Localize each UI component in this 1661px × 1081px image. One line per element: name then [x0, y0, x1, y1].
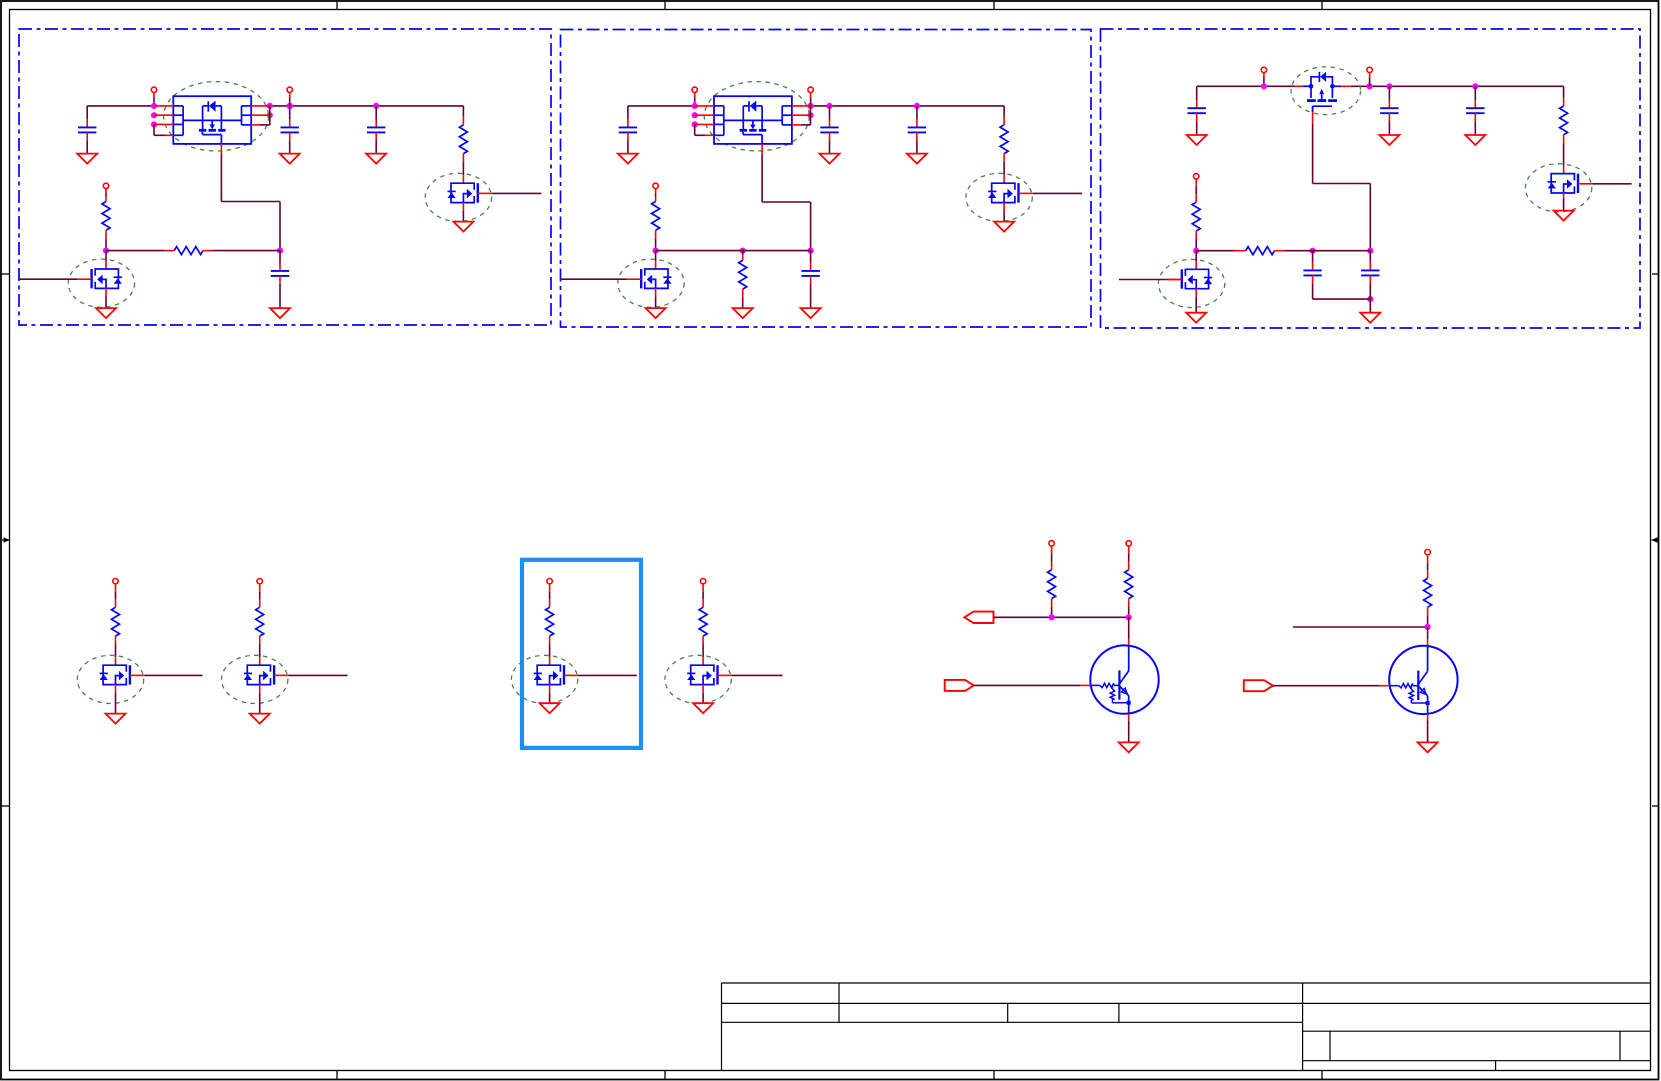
node dots bottom net 2 [653, 248, 814, 254]
highlight selection box [522, 560, 641, 748]
wire gate Q2b from edge [561, 278, 627, 280]
capacitor C2d [801, 251, 819, 308]
capacitor C22 [820, 106, 838, 153]
wire bottom net 1 left [106, 250, 174, 252]
power-block dash-dot boundary 3 [1101, 29, 1641, 328]
MOSFET Q3a [1548, 174, 1593, 193]
node junction dots on rail 2 [692, 103, 920, 128]
wire source Q4 to ground [115, 685, 117, 714]
pin P7 [700, 579, 705, 608]
wire U2 gate net [762, 144, 811, 251]
capacitor C21 [619, 106, 637, 153]
wire R5 to Q5 [259, 636, 261, 665]
resistor R2a [1000, 106, 1008, 154]
wire emitter to ground 8 [1128, 714, 1130, 742]
rail junction dots 3 [1261, 83, 1479, 89]
resistor R3a [1560, 86, 1568, 135]
wire R2a to Q2a [1003, 154, 1005, 184]
U2 left pin stubs [695, 106, 714, 135]
pin VOUT2 [808, 87, 813, 106]
wire port to node 8 [994, 616, 1129, 618]
ground below C33 [1465, 135, 1485, 145]
resistor R8a [1048, 570, 1056, 618]
capacitor C3e [1361, 251, 1379, 299]
wire bottom net 2 [656, 250, 811, 252]
wire gate Q7 out [732, 674, 783, 676]
pin P5 [257, 579, 262, 608]
resistor R2b [652, 202, 660, 251]
resistor R1b [102, 202, 110, 251]
ground below C13 [366, 154, 386, 164]
pin VOUT3 [1367, 67, 1372, 86]
ground below Q3b [1186, 313, 1206, 323]
capacitor C1d [271, 251, 289, 308]
enclosure ellipse Q1b [68, 259, 134, 307]
wire input port to base 9 [1273, 685, 1389, 687]
pin P4 [113, 579, 118, 608]
resistor R3b [1192, 202, 1200, 251]
wire source Q1a to ground [462, 203, 464, 222]
enclosure ellipse Q2a [966, 173, 1032, 221]
digital transistor Q8 [1090, 645, 1158, 713]
U1 left pin stubs [154, 106, 173, 135]
capacitor C31 [1188, 86, 1206, 135]
ground below Q2b [646, 308, 666, 318]
wire VIN rail net 3 [1197, 85, 1564, 87]
op enclosure ellipse U1 [164, 82, 269, 151]
resistor R1a [459, 106, 467, 154]
pin VIN3 [1261, 67, 1266, 86]
wire R7 to Q7 [702, 636, 704, 665]
wire source Q6 to ground [549, 685, 551, 703]
wire bottom net 1 right [203, 250, 280, 252]
ground below Q1a [453, 222, 473, 232]
ground below Q4 [106, 714, 126, 724]
ground below C3e [1360, 313, 1380, 323]
pin EN3 [1194, 174, 1199, 203]
enclosure ellipse Q4 [77, 655, 143, 703]
output port tag 8 [964, 612, 993, 623]
MOSFET Q1a [448, 183, 493, 202]
wire bottom net 3 left [1196, 250, 1246, 252]
capacitor C11 [78, 106, 96, 153]
MOSFET Q6 [534, 665, 579, 684]
MOSFET Q3b [1168, 269, 1213, 288]
wire VIN rail net 2 [628, 105, 1004, 107]
capacitor C23 [908, 106, 926, 153]
wire node to collector 9 [1427, 627, 1429, 646]
ground below C12 [280, 154, 300, 164]
power-block dash-dot boundary 1 [19, 29, 551, 325]
MOSFET Q7 [687, 665, 732, 684]
wire gate Q1a out [492, 192, 541, 194]
wire drain Q3b [1195, 251, 1197, 270]
pin P8b [1126, 541, 1131, 570]
wire C3e node to ground [1369, 299, 1371, 312]
pin EN1 [103, 183, 108, 201]
power-block dash-dot boundary 2 [561, 30, 1092, 328]
resistor R3c horizontal [1246, 247, 1275, 255]
wire R6 to Q6 [549, 636, 551, 665]
resistor R6 [546, 607, 554, 636]
ground below Q3a [1554, 211, 1574, 221]
wire Q3 gate net [1313, 106, 1371, 251]
resistor R8b [1125, 570, 1133, 618]
MOSFET Q4 [100, 665, 145, 684]
enclosure ellipse Q7 [665, 655, 731, 703]
wire emitter to ground 9 [1427, 714, 1429, 742]
capacitor C12 [281, 106, 299, 153]
wire VIN rail net 1 [87, 105, 463, 107]
ground below C32 [1379, 135, 1399, 145]
MOSFET Q5 [244, 665, 289, 684]
node junction dots on rail 1 [151, 103, 379, 128]
wire R3a to Q3a [1563, 135, 1565, 174]
pin VOUT1 [287, 87, 292, 106]
ground below R2c [733, 308, 753, 318]
wire node to collector 8 [1128, 617, 1130, 645]
wire source Q3a to ground [1563, 193, 1565, 210]
border centre arrows [2, 537, 1659, 542]
wire input port to base 8 [974, 684, 1091, 686]
digital transistor Q9 [1389, 646, 1457, 714]
capacitor C3d [1303, 251, 1321, 299]
capacitor C13 [367, 106, 385, 153]
wire U1 gate net [221, 144, 280, 251]
ground below Q1b [96, 308, 116, 318]
wire source Q2a to ground [1003, 203, 1005, 222]
op enclosure ellipse U2 [704, 82, 809, 151]
ground below C23 [907, 154, 927, 164]
wire source Q2b to ground [655, 288, 657, 308]
wire stub net 9 [1293, 626, 1428, 628]
wire C3d to node [1313, 298, 1371, 300]
resistor R4 [112, 607, 120, 636]
wire gate Q3a out [1592, 183, 1631, 185]
ground below Q2a [994, 222, 1014, 232]
input port tag 9 [1244, 680, 1273, 691]
wire drain Q2b [655, 251, 657, 269]
U1 right pin stubs [251, 106, 270, 125]
resistor R9 [1424, 578, 1432, 627]
ground below Q8 [1119, 742, 1139, 752]
ground below Q5 [250, 714, 270, 724]
ground below C1d [270, 308, 290, 318]
wire bottom net 3 right [1275, 250, 1371, 252]
ground below C2d [801, 308, 821, 318]
MOSFET Q1b [77, 269, 122, 288]
resistor R5 [256, 607, 264, 636]
wire drain Q1b [105, 251, 107, 269]
dual PMOS load switch U2 [714, 96, 792, 144]
pin VIN2 [692, 87, 697, 106]
capacitor C33 [1466, 86, 1484, 135]
U2 right pin stubs [792, 106, 811, 125]
node dot 9 [1425, 624, 1431, 630]
wire gate Q5 out [288, 674, 347, 676]
capacitor C32 [1380, 86, 1398, 135]
resistor R1c horizontal [174, 247, 203, 255]
pin VIN1 [151, 87, 156, 106]
enclosure ellipse Q5 [222, 655, 288, 703]
wire R1a to Q1a [462, 154, 464, 184]
wire R4 to Q4 [115, 636, 117, 665]
wire source Q7 to ground [702, 685, 704, 703]
enclosure ellipse Q1a [425, 173, 491, 221]
node dots bottom net 1 [103, 248, 283, 254]
enclosure ellipse Q6 [511, 655, 577, 703]
wire gate Q1b from edge [19, 278, 77, 280]
enclosure ellipse Q3b [1158, 259, 1224, 307]
enclosure ellipse Q2b [618, 259, 684, 307]
ground below Q9 [1418, 742, 1438, 752]
ground below C21 [618, 154, 638, 164]
pin P6 [547, 579, 552, 608]
wire gate Q3b [1119, 279, 1182, 281]
wire gate Q6 out [578, 674, 637, 676]
pin P8a [1049, 541, 1054, 570]
resistor R2c to ground [739, 251, 747, 308]
node dots 8 [1049, 614, 1132, 620]
node dots bottom net 3 [1193, 248, 1373, 303]
input port tag 8 [945, 680, 974, 691]
pin EN2 [653, 183, 658, 201]
wire source Q3b to ground [1195, 289, 1197, 313]
resistor R7 [699, 607, 707, 636]
wire gate Q4 out [144, 674, 202, 676]
PMOS pass transistor Q3 [1303, 72, 1341, 112]
wire gate Q2a out [1033, 192, 1082, 194]
ground below C11 [77, 154, 97, 164]
enclosure ellipse Q3a [1525, 164, 1591, 212]
wire source Q1b to ground [105, 288, 107, 308]
ground below Q7 [693, 703, 713, 713]
pin P9 [1425, 550, 1430, 579]
enclosure ellipse Q3 [1291, 67, 1361, 115]
dual PMOS load switch U1 [173, 96, 251, 144]
MOSFET Q2b [627, 269, 672, 288]
ground below Q6 [540, 703, 560, 713]
title block [722, 983, 1651, 1071]
ground below C31 [1187, 135, 1207, 145]
MOSFET Q2a [988, 183, 1033, 202]
wire source Q5 to ground [259, 685, 261, 714]
ground below C22 [820, 154, 840, 164]
